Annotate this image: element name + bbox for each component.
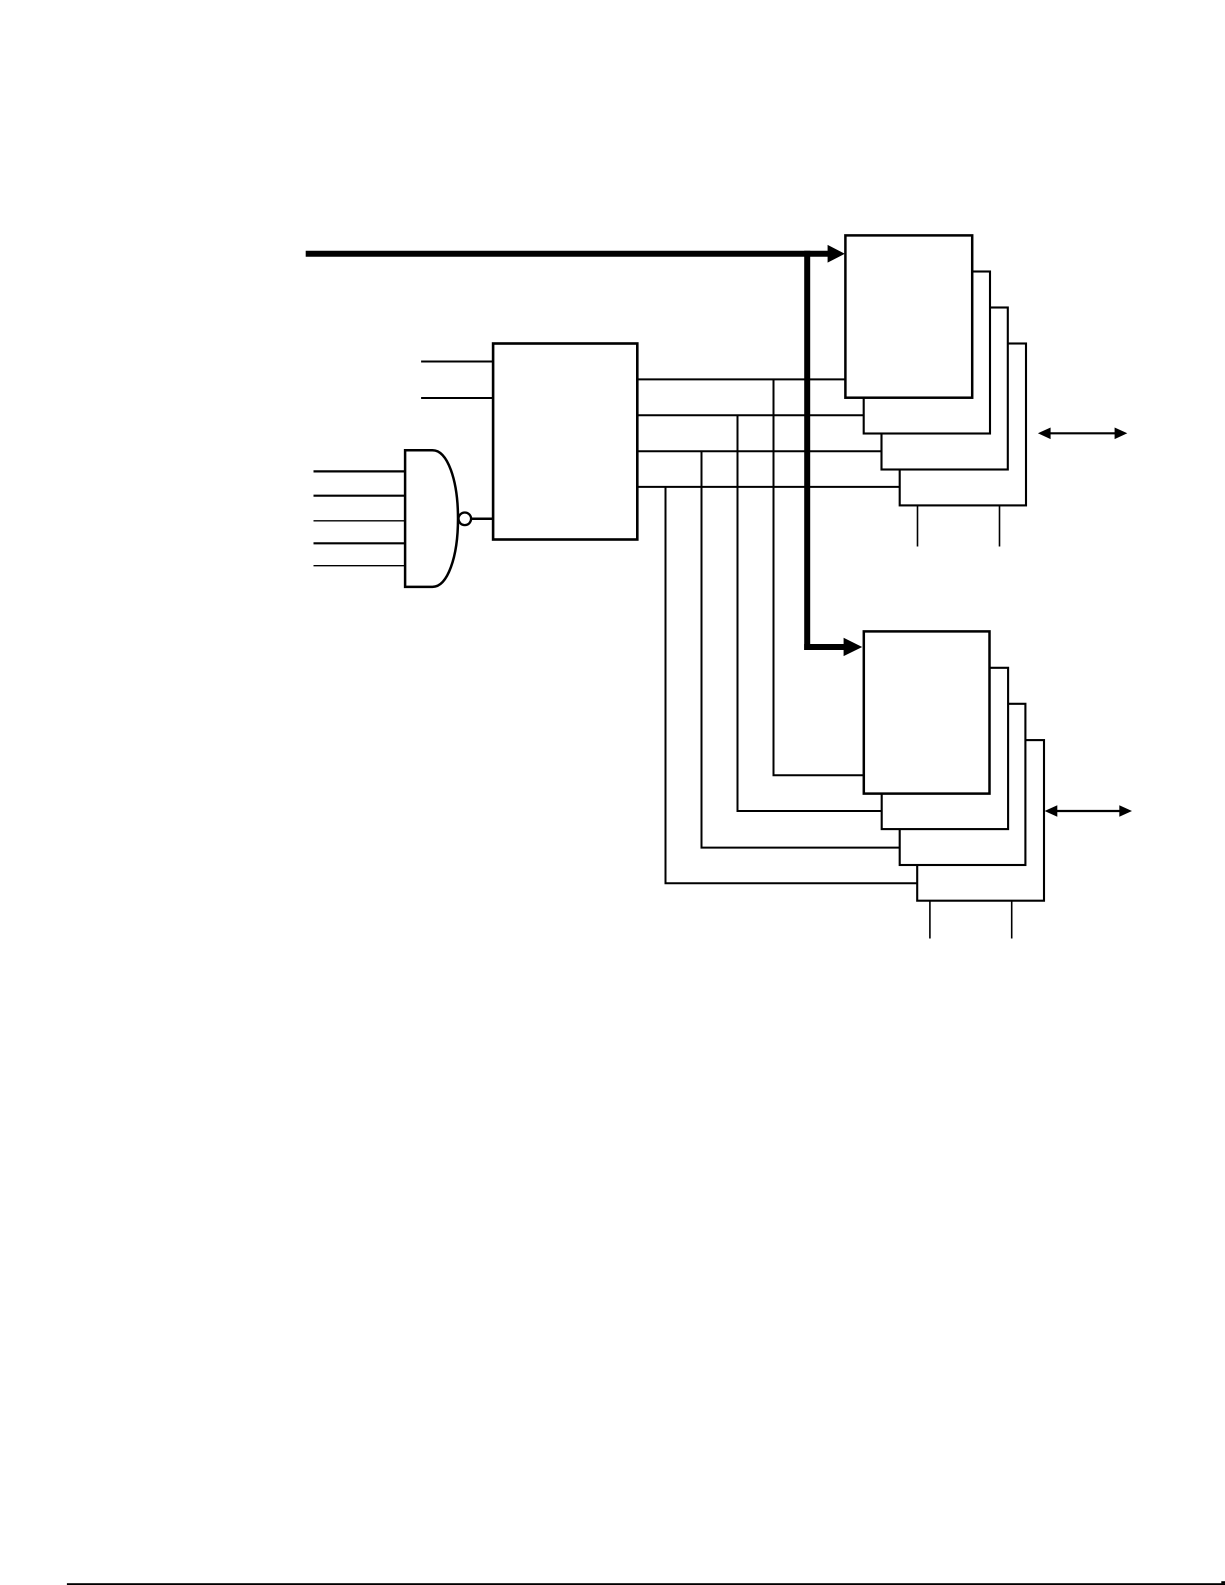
- wire W4: decoder output 4 to bank stack A rect 4: [637, 486, 900, 488]
- data bus bidirectional arrow, stack A: [1038, 428, 1127, 440]
- memory bank stack A I/O stub 1: [917, 505, 919, 546]
- data bus bidirectional arrow, stack B: [1045, 805, 1132, 817]
- memory bank stack B rect 2: [882, 668, 1008, 829]
- decoder input wire 2: [421, 397, 493, 399]
- memory bank stack A rect 4 (back): [900, 344, 1026, 506]
- address bus: thick vertical branch: [804, 251, 810, 650]
- NAND input wire 4: [314, 542, 407, 544]
- NAND input wire 5: [314, 565, 407, 567]
- NAND input wire 2: [314, 495, 407, 497]
- footer rule end tick: [1221, 1581, 1225, 1583]
- NAND input wire 1: [314, 470, 407, 472]
- wire B2: branch of W2 down to bank stack B rect 2: [738, 415, 883, 811]
- address bus: thick horizontal run: [306, 251, 829, 257]
- memory bank stack B I/O stub 1: [929, 901, 931, 939]
- wire B1: branch of W1 down to bank stack B rect 1: [774, 379, 865, 775]
- memory bank stack B rect 1 (front): [864, 631, 990, 793]
- NAND input wire 3: [314, 520, 407, 522]
- wire B4: branch of W4 down to bank stack B rect 4: [666, 487, 918, 883]
- address bus arrowhead into bank stack A: [828, 245, 845, 263]
- memory bank stack A I/O stub 2: [999, 505, 1001, 546]
- memory bank stack B I/O stub 2: [1011, 901, 1013, 939]
- NAND gate U2 inversion bubble: [459, 513, 472, 526]
- wire B3: branch of W3 down to bank stack B rect 3: [702, 451, 901, 847]
- NAND gate U2 body: [405, 450, 458, 587]
- memory bank stack B rect 4 (back): [917, 740, 1044, 901]
- memory bank stack A rect 1 (front): [845, 235, 972, 397]
- memory bank stack A rect 3: [882, 308, 1008, 470]
- decoder input wire 1: [421, 361, 493, 363]
- memory bank stack A rect 2: [864, 272, 990, 434]
- decoder U1: [493, 344, 637, 540]
- wire W1: decoder output 1 to bank stack A rect 1: [637, 378, 846, 380]
- wire W2: decoder output 2 to bank stack A rect 2: [637, 414, 864, 416]
- NAND output wire to decoder: [471, 518, 493, 521]
- address bus: thick lower horizontal run: [804, 644, 844, 650]
- memory bank stack B rect 3: [900, 704, 1026, 865]
- wire W3: decoder output 3 to bank stack A rect 3: [637, 450, 882, 452]
- address bus arrowhead into bank stack B: [844, 638, 863, 656]
- footer rule: [67, 1583, 1225, 1585]
